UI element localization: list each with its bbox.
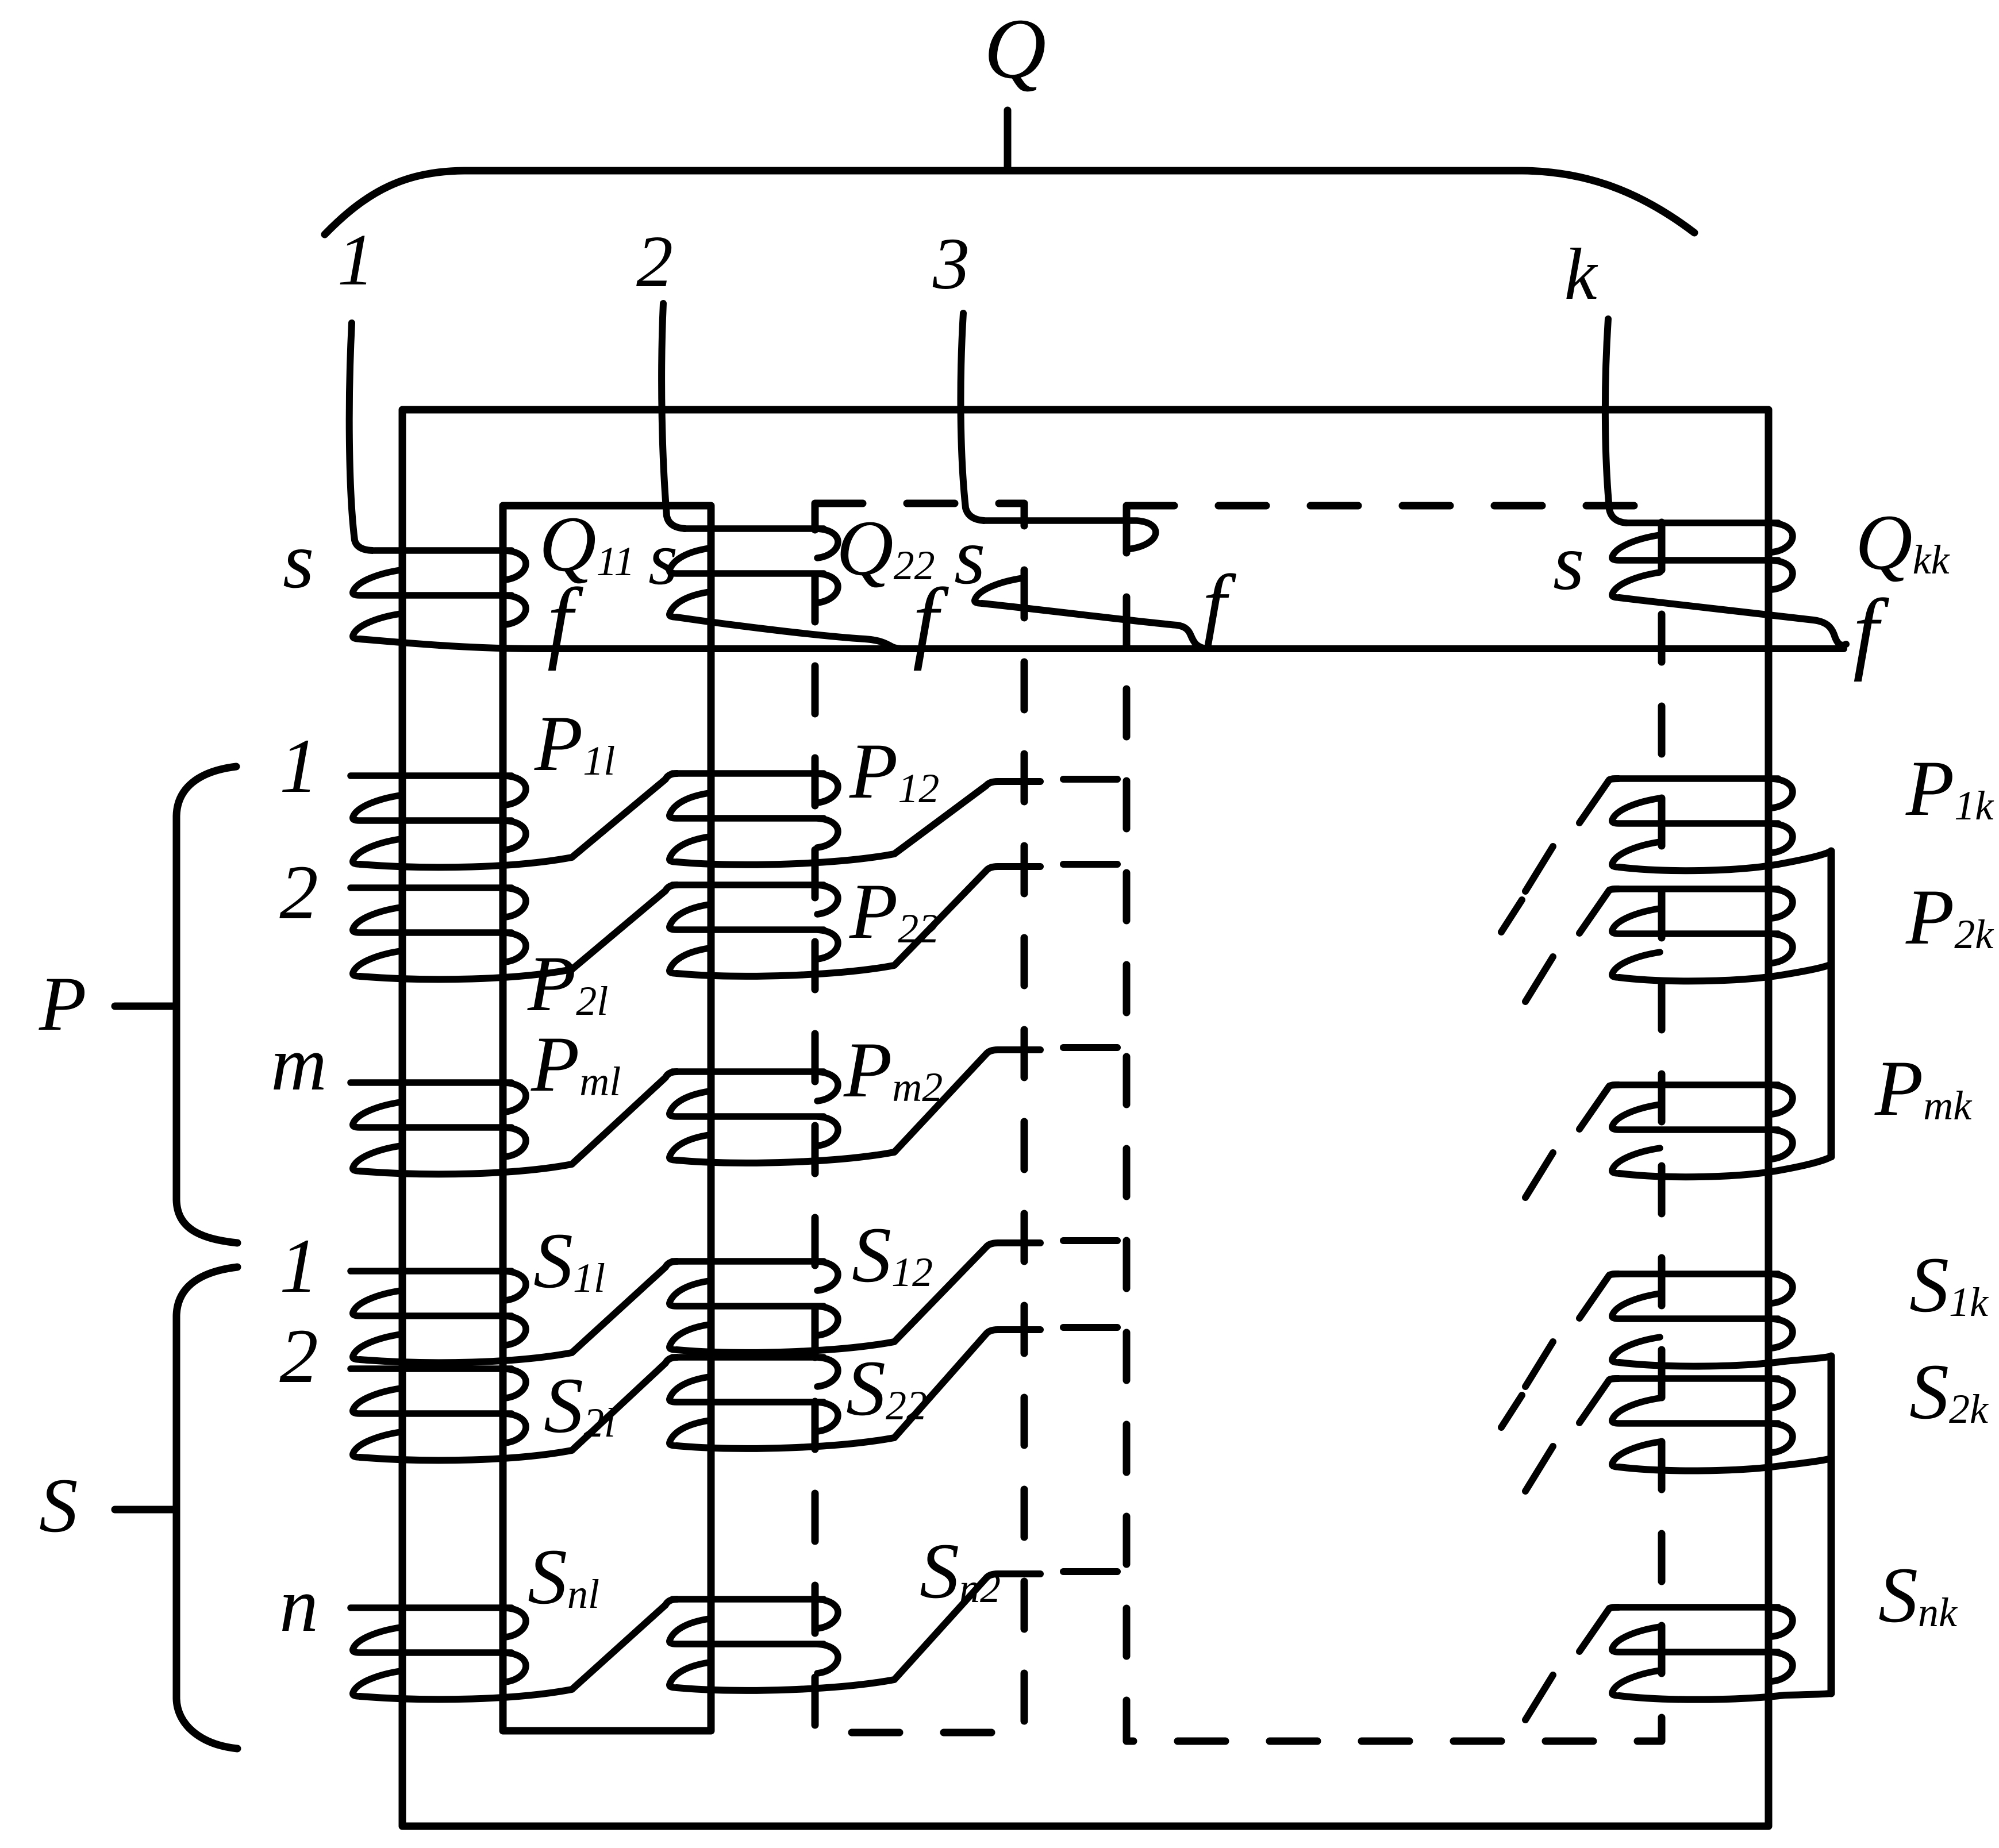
core elided-region large dashed rectangle xyxy=(1127,506,1662,1741)
label Q xyxy=(984,1,1046,97)
coil Q22 winding xyxy=(670,529,838,617)
coil S2k winding (column k) xyxy=(1612,1379,1793,1467)
label S xyxy=(39,1463,78,1549)
svg-text:s: s xyxy=(954,512,985,601)
svg-text:3: 3 xyxy=(932,223,970,305)
label S1l xyxy=(533,1216,605,1304)
coil Q11 winding xyxy=(353,550,526,639)
svg-text:P: P xyxy=(39,961,86,1047)
brace Q (top) xyxy=(325,171,1694,234)
coil P1k winding (column k) xyxy=(1612,779,1793,867)
wire P1l to P12 (diagonal link) xyxy=(360,773,677,867)
label f (Q33 finish) xyxy=(1202,557,1236,653)
label S2k xyxy=(1909,1347,1989,1435)
label P12 xyxy=(849,727,939,815)
svg-text:1: 1 xyxy=(337,219,374,301)
coil S1l winding (column 1) xyxy=(351,1271,526,1360)
svg-text:m: m xyxy=(271,1021,327,1107)
tick P label xyxy=(115,1003,176,1010)
coil P2k winding (column k) xyxy=(1612,889,1793,977)
label Pm2 xyxy=(843,1026,943,1114)
core window dashed rectangle (limb 3) xyxy=(815,503,1024,1732)
coil Snl winding (column 1) xyxy=(351,1608,526,1696)
label f (Qkk finish) xyxy=(1853,580,1889,682)
wire S1k finish to series connector xyxy=(1619,1356,1831,1366)
label Q22 xyxy=(836,504,935,592)
label 2 (row P2 terminal) xyxy=(279,850,318,935)
wire S12 outgoing link with stub xyxy=(676,1243,1040,1353)
brace S (left) xyxy=(176,1267,237,1749)
wire Sn2 outgoing link with stub xyxy=(676,1574,1040,1691)
wire P2 dashed continuation xyxy=(1063,861,1117,868)
coil P1l winding (column 1) xyxy=(351,776,526,864)
wire S2l to S22 (diagonal link) xyxy=(360,1357,677,1460)
label f (Q11 finish) xyxy=(547,569,583,671)
label 1 (terminal) xyxy=(337,219,374,301)
label n (row Sn terminal) xyxy=(279,1562,318,1648)
wire Q33 finish lead to bus xyxy=(982,603,1207,649)
label Pmk xyxy=(1874,1044,1973,1132)
svg-text:k: k xyxy=(1564,233,1598,315)
wire P22 outgoing link with stub xyxy=(676,867,1040,976)
wire P1k incoming dashed stub xyxy=(1525,779,1619,891)
wire terminal 3 to Q33 xyxy=(960,313,984,521)
coil Snk winding (column k) xyxy=(1612,1607,1793,1696)
wire S1k extra dashed stub xyxy=(1501,1395,1522,1427)
wire S1l to S12 (diagonal link) xyxy=(360,1261,677,1362)
svg-text:2: 2 xyxy=(279,1314,318,1399)
wire Snk incoming dashed stub xyxy=(1525,1607,1619,1720)
label 1 (row S1 terminal) xyxy=(279,1223,318,1309)
coil S12 winding (column 2) xyxy=(670,1261,838,1350)
wire Snk finish to series connector xyxy=(1619,1693,1831,1700)
label s (Q22 start) xyxy=(648,516,678,600)
label P1l xyxy=(534,699,615,787)
label Q11 xyxy=(539,500,635,588)
svg-text:1: 1 xyxy=(279,723,318,809)
wire S1k incoming dashed stub xyxy=(1525,1274,1619,1387)
coil S22 winding (column 2) xyxy=(670,1357,838,1446)
core outer rectangle xyxy=(402,410,1769,1826)
coil S1k winding (column k) xyxy=(1612,1274,1793,1362)
wire Pmk finish to series connector xyxy=(1619,1157,1831,1177)
wire Q22 finish lead to bus xyxy=(676,617,904,649)
label s (Q33 start) xyxy=(954,512,985,601)
label s (Q11 start) xyxy=(283,516,314,605)
svg-text:n: n xyxy=(279,1562,318,1648)
svg-text:2: 2 xyxy=(636,221,673,302)
wire P2k finish to series connector xyxy=(1619,964,1831,981)
wire terminal 1 to Q11 xyxy=(349,323,372,550)
wire Pm dashed continuation xyxy=(1063,1044,1117,1051)
tick Q label xyxy=(1004,110,1012,170)
wire terminal 2 to Q22 xyxy=(662,303,685,529)
wire P1k extra dashed stub xyxy=(1501,900,1522,932)
wire S-column-k series connector xyxy=(1828,1356,1835,1693)
svg-text:s: s xyxy=(1553,518,1584,607)
wire Qkk finish lead to bus end xyxy=(1619,598,1846,645)
label Qkk xyxy=(1855,498,1951,586)
label S22 xyxy=(846,1344,927,1432)
label 1 (row P1 terminal) xyxy=(279,723,318,809)
svg-text:2: 2 xyxy=(279,850,318,935)
label 3 (terminal) xyxy=(932,223,970,305)
label 2 (row S2 terminal) xyxy=(279,1314,318,1399)
svg-text:1: 1 xyxy=(279,1223,318,1309)
wire P2k incoming dashed stub xyxy=(1525,889,1619,1002)
label 2 (terminal) xyxy=(636,221,673,302)
label Pml xyxy=(530,1020,621,1108)
wire P2l to P22 (diagonal link) xyxy=(360,885,677,979)
wire S2 dashed continuation xyxy=(1063,1324,1117,1331)
core window solid rectangle (limb 1-2) xyxy=(503,506,711,1731)
wire Pmk incoming dashed stub xyxy=(1525,1085,1619,1198)
coil Sn2 winding (column 2) xyxy=(670,1599,838,1688)
svg-text:S: S xyxy=(39,1463,78,1549)
label s (Qkk start) xyxy=(1553,518,1584,607)
wire P1 dashed continuation xyxy=(1063,776,1117,783)
label m (row Pm terminal) xyxy=(271,1021,327,1107)
wire S2k incoming dashed stub xyxy=(1525,1379,1619,1491)
label k (terminal) xyxy=(1564,233,1598,315)
label Snk xyxy=(1878,1551,1958,1639)
tick S label xyxy=(115,1506,176,1514)
svg-text:s: s xyxy=(648,516,678,600)
label P2l xyxy=(527,940,608,1027)
wire P12 outgoing link with stub xyxy=(676,781,1040,865)
coil Q33 winding (partial, column 3) xyxy=(975,521,1156,603)
label S12 xyxy=(852,1211,933,1299)
coil P12 winding (column 2) xyxy=(670,773,838,862)
svg-text:s: s xyxy=(283,516,314,605)
wire S1 dashed continuation xyxy=(1063,1237,1117,1244)
label P xyxy=(39,961,86,1047)
label Sn2 xyxy=(920,1527,1001,1615)
coil P2l winding (column 1) xyxy=(351,888,526,976)
brace P (left) xyxy=(176,767,237,1243)
wire S2k finish to series connector xyxy=(1619,1458,1831,1470)
wire Pm2 outgoing link with stub xyxy=(676,1050,1040,1163)
wire common f bus xyxy=(360,639,1844,649)
wire Sn dashed continuation xyxy=(1063,1568,1117,1575)
label S1k xyxy=(1909,1241,1989,1329)
coil S2l winding (column 1) xyxy=(351,1369,526,1457)
wire P-column-k series connector xyxy=(1828,851,1835,1157)
coil Pml winding (column 1) xyxy=(351,1083,526,1171)
label P22 xyxy=(849,867,939,955)
label P2k xyxy=(1905,873,1994,961)
coil Qkk winding xyxy=(1612,523,1793,598)
wire S22 outgoing link with stub xyxy=(676,1330,1040,1449)
svg-text:Q: Q xyxy=(984,1,1046,97)
coil Pmk winding (column k) xyxy=(1612,1085,1793,1173)
wire terminal k to Qkk xyxy=(1605,319,1627,523)
coil P22 winding (column 2) xyxy=(670,885,838,973)
label f (Q22 finish) xyxy=(913,569,949,671)
coil Pm2 winding (column 2) xyxy=(670,1072,838,1160)
wire P1k finish to series connector xyxy=(1619,851,1831,871)
label S2l xyxy=(544,1361,616,1449)
wire Snl to Sn2 (diagonal link) xyxy=(360,1599,677,1699)
label P1k xyxy=(1905,744,1994,832)
wire Pml to Pm2 (diagonal link) xyxy=(360,1072,677,1174)
label Snl xyxy=(528,1533,599,1620)
